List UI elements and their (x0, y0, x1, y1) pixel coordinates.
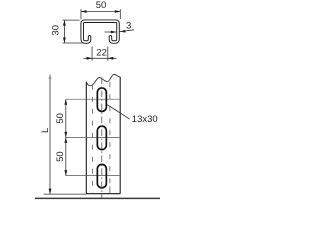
svg-text:13x30: 13x30 (132, 114, 158, 125)
svg-text:22: 22 (96, 48, 107, 59)
svg-text:L: L (40, 128, 51, 133)
svg-text:50: 50 (55, 113, 66, 124)
svg-text:3: 3 (126, 20, 131, 31)
svg-text:50: 50 (96, 0, 107, 11)
svg-text:30: 30 (50, 25, 61, 36)
svg-text:50: 50 (55, 151, 66, 162)
